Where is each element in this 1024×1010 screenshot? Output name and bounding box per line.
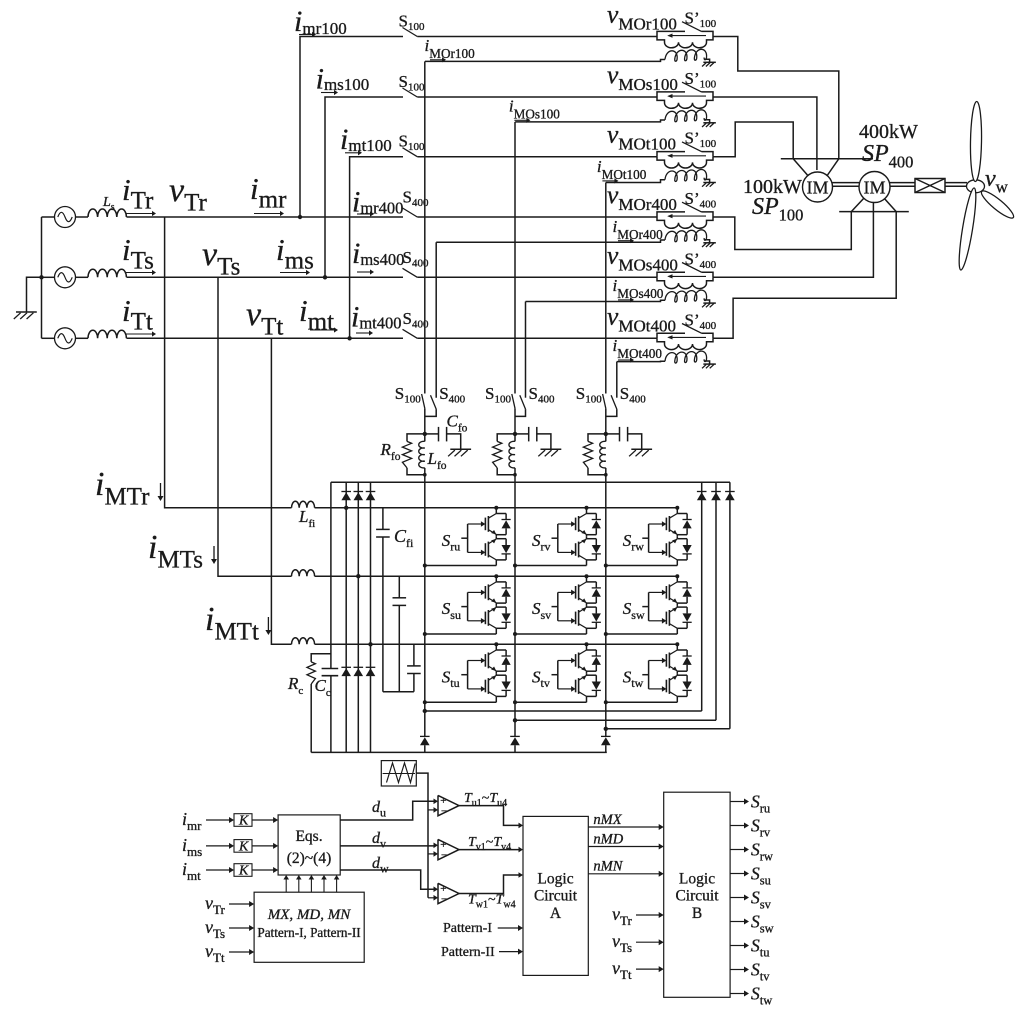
wire MX-Eqs arrow bbox=[298, 879, 300, 893]
node tap bbox=[298, 215, 302, 219]
wire output v bbox=[514, 482, 516, 736]
svg-text:Logic: Logic bbox=[679, 871, 715, 888]
wire clamp left edge lower bbox=[330, 676, 332, 753]
wire after switch bbox=[417, 337, 657, 339]
wire node to converter bbox=[605, 434, 607, 442]
svg-text:Eqs.: Eqs. bbox=[295, 828, 322, 845]
comparator v bbox=[438, 839, 459, 859]
wire Stw output bbox=[606, 701, 678, 703]
turbine blade lower-left bbox=[956, 187, 979, 271]
wire after switch bbox=[417, 216, 657, 218]
wire i_MOs400 bbox=[526, 301, 658, 303]
clamp diode leg r bbox=[345, 482, 347, 752]
inductor Lfo bbox=[509, 441, 515, 468]
wire K to Eqs bbox=[252, 869, 274, 871]
wire secondary left bbox=[657, 60, 665, 62]
wire secondary right bbox=[705, 240, 710, 243]
comparator w bbox=[438, 883, 459, 903]
wire phase bbox=[76, 276, 89, 278]
wire node to converter bbox=[424, 434, 426, 442]
wire vT to MX block bbox=[229, 951, 250, 953]
node Rfo bottom bbox=[423, 473, 427, 477]
wire tap phase r to 100-line bbox=[300, 37, 403, 218]
wire Pattern-I bbox=[498, 927, 519, 929]
wire r400 to IM400 bbox=[713, 212, 851, 250]
wire clamp left edge upper bbox=[330, 482, 332, 668]
node Stv bbox=[513, 700, 517, 704]
wire branch v S100 side bbox=[514, 122, 516, 394]
wire t100 to IM100 bbox=[713, 122, 793, 159]
secondary coil MOt400 bbox=[665, 351, 707, 363]
inductor Lfi t bbox=[292, 638, 315, 645]
node tap bbox=[347, 336, 351, 340]
switch S400 branch u blade bbox=[431, 395, 437, 409]
wire S_tv output bbox=[730, 969, 745, 971]
wire MX-Eqs arrow bbox=[336, 879, 338, 893]
wire d_w bbox=[340, 870, 433, 889]
switch S'100 blade bbox=[682, 142, 702, 152]
ground secondary bbox=[703, 363, 715, 365]
switch cell Stu bbox=[461, 674, 467, 676]
wire IM100 lead right bbox=[827, 159, 839, 177]
switch S100 line 3 blade bbox=[403, 148, 418, 157]
wire branch u S100 side bbox=[424, 61, 426, 393]
wire after switch bbox=[417, 36, 657, 38]
wire vT to MX block bbox=[229, 927, 250, 929]
wire S_ru output bbox=[730, 801, 745, 803]
switch S100 line 2 blade bbox=[403, 88, 418, 97]
switch S400 branch w blade bbox=[611, 395, 617, 409]
wire i_MTs bbox=[218, 277, 292, 576]
capacitor Cfo bbox=[606, 433, 620, 435]
block Logic Circuit B bbox=[664, 792, 730, 997]
inductor Ls coil bbox=[88, 330, 126, 338]
ground Cfo bbox=[450, 448, 471, 450]
wire i_MTr bbox=[165, 217, 292, 508]
switch cell Ssu bbox=[461, 606, 467, 608]
switch S100 branch v blade bbox=[512, 394, 515, 408]
transformer block MOs400 bbox=[657, 272, 685, 277]
switch S'400 blade bbox=[682, 202, 702, 212]
wire secondary right bbox=[705, 59, 710, 62]
shaft IM400-gearbox bbox=[890, 182, 915, 184]
wire rail r bbox=[292, 507, 300, 509]
ac source Vr bbox=[55, 207, 76, 228]
wire MX-Eqs arrow bbox=[323, 879, 325, 893]
wire IM400 input bar bbox=[839, 211, 909, 213]
svg-text:(2)~(4): (2)~(4) bbox=[287, 850, 332, 867]
node filter bbox=[604, 432, 608, 436]
switch cell Sru bbox=[461, 537, 467, 539]
wire secondary right bbox=[705, 120, 710, 123]
wire Sru output bbox=[425, 565, 497, 567]
wire after switch bbox=[417, 156, 657, 158]
node clamp-rail bbox=[356, 574, 360, 578]
wire i_MOt100 bbox=[606, 182, 657, 184]
svg-text:nMD: nMD bbox=[593, 831, 623, 847]
switch cell Stw bbox=[642, 674, 648, 676]
capacitor Cfi t bbox=[413, 644, 415, 666]
node clamp-rail bbox=[368, 642, 372, 646]
wire T_u out bbox=[459, 806, 519, 826]
wire i_MOt400 bbox=[617, 361, 657, 363]
svg-text:IM: IM bbox=[807, 178, 829, 198]
wire Srw output bbox=[606, 565, 678, 567]
ground secondary bbox=[703, 182, 715, 184]
wire t400 to IM400 bbox=[713, 212, 896, 339]
wire tap phase s to 100-line bbox=[325, 97, 403, 277]
ground Cfo bbox=[541, 448, 562, 450]
node Rfo bottom bbox=[604, 473, 608, 477]
diode output v to N bbox=[510, 735, 520, 737]
wire S_sw output bbox=[730, 921, 745, 923]
wire Pattern-II bbox=[499, 951, 519, 953]
inductor Ls coil bbox=[88, 209, 126, 217]
transformer block MOs100 bbox=[657, 92, 685, 97]
node Stw bbox=[604, 700, 608, 704]
wire vT to Logic B bbox=[636, 968, 660, 970]
svg-text:400kW: 400kW bbox=[859, 121, 918, 143]
transformer block MOr400 bbox=[657, 212, 685, 217]
ground Cfo bbox=[631, 448, 652, 450]
transformer block MOt100 bbox=[657, 152, 685, 157]
clamp diode leg s bbox=[357, 482, 359, 752]
wire T_w out bbox=[459, 875, 519, 894]
wire IM400 lead right bbox=[884, 198, 897, 212]
diode output u to N bbox=[420, 735, 430, 737]
switch S400 branch v blade bbox=[520, 395, 526, 409]
switch S'100 blade bbox=[682, 22, 702, 32]
wire i_MOr100 bbox=[425, 60, 657, 62]
svg-text:B: B bbox=[692, 905, 702, 922]
wire nMN bbox=[588, 873, 659, 875]
wire S_sv output bbox=[730, 897, 745, 899]
secondary coil MOr100 bbox=[665, 49, 707, 61]
resistor Rfo bbox=[497, 434, 515, 442]
switch S'400 blade bbox=[682, 263, 702, 273]
wire nMX bbox=[588, 826, 659, 828]
wire IM100 input bar bbox=[781, 158, 873, 160]
node Ssw bbox=[604, 632, 608, 636]
wire vT to Logic B bbox=[636, 914, 660, 916]
wire K to Eqs bbox=[252, 845, 274, 847]
wire S_tu output bbox=[730, 945, 745, 947]
secondary coil MOs100 bbox=[665, 110, 707, 122]
inductor Lfo bbox=[600, 441, 606, 468]
wire d_u bbox=[340, 801, 433, 820]
diode output v to P bbox=[715, 482, 717, 720]
wire output w bbox=[605, 482, 607, 736]
switch S400 row t blade bbox=[403, 329, 418, 338]
wire minus input bbox=[428, 809, 435, 811]
wire S_rw output bbox=[730, 849, 745, 851]
wire minus input bbox=[428, 897, 435, 899]
wire S_rv output bbox=[730, 825, 745, 827]
svg-text:K: K bbox=[238, 864, 249, 879]
switch cell Ssv bbox=[552, 606, 558, 608]
capacitor Cfi s bbox=[398, 576, 400, 598]
turbine blade lower-right bbox=[979, 188, 1017, 222]
wire to K bbox=[206, 845, 230, 847]
wire S400 join bbox=[515, 409, 526, 416]
transformer block MOr100 bbox=[657, 31, 685, 36]
wire nMD bbox=[588, 846, 659, 848]
node Stu bbox=[423, 700, 427, 704]
wire to node bbox=[605, 408, 607, 434]
shaft gearbox-turbine bbox=[945, 182, 967, 184]
switch S400 row s blade bbox=[403, 268, 418, 277]
wire secondary right bbox=[705, 300, 710, 303]
wire secondary left bbox=[657, 300, 665, 301]
ground secondary bbox=[703, 242, 715, 244]
wire neutral to ground bbox=[27, 277, 42, 311]
motor IM 400kW bbox=[859, 172, 890, 203]
resistor Rfo bbox=[588, 434, 606, 442]
ac source Vs bbox=[55, 267, 76, 288]
wire node to converter bbox=[514, 434, 516, 442]
wire Srv output bbox=[515, 565, 587, 567]
svg-text:nMX: nMX bbox=[593, 812, 622, 828]
wire MX-Eqs arrow bbox=[310, 879, 312, 893]
svg-text:IM: IM bbox=[864, 178, 886, 198]
capacitor Cfo bbox=[515, 433, 529, 435]
wire source left bus bbox=[42, 216, 55, 218]
block Eqs (2)-(4) bbox=[278, 815, 340, 875]
wire to node bbox=[514, 408, 516, 434]
carrier generator box bbox=[381, 761, 416, 786]
gain block K ms bbox=[234, 840, 252, 853]
transformer block MOt400 bbox=[657, 333, 685, 338]
inductor Lfo bbox=[419, 441, 425, 468]
wire feedback v bbox=[515, 719, 716, 721]
wire i_MOr400 bbox=[436, 241, 657, 243]
wire to K bbox=[206, 819, 230, 821]
svg-text:Pattern-I, Pattern-II: Pattern-I, Pattern-II bbox=[257, 925, 360, 940]
ground source bbox=[16, 311, 37, 313]
wire branch v S400 side bbox=[525, 302, 527, 398]
wire vT to Logic B bbox=[636, 941, 660, 943]
wire carrier out bbox=[416, 773, 428, 898]
wire minus input bbox=[428, 853, 435, 855]
shaft IM100-IM400 bbox=[833, 182, 860, 184]
wire to node bbox=[424, 408, 426, 434]
wire S400 join bbox=[425, 409, 436, 416]
svg-text:nMN: nMN bbox=[593, 859, 623, 875]
inductor Ls coil bbox=[88, 269, 126, 277]
wire phase bbox=[76, 216, 89, 218]
wire i_MTt bbox=[271, 338, 291, 644]
wire secondary left bbox=[657, 360, 665, 362]
switch S400 row r blade bbox=[403, 208, 418, 217]
diode output u to P bbox=[701, 482, 703, 711]
capacitor Cfo bbox=[425, 433, 439, 435]
svg-text:Pattern-II: Pattern-II bbox=[441, 945, 495, 960]
svg-text:Pattern-I: Pattern-I bbox=[443, 921, 492, 936]
wire S_tw output bbox=[730, 993, 745, 995]
wire Stv output bbox=[515, 701, 587, 703]
node Ssu bbox=[423, 632, 427, 636]
ground secondary bbox=[703, 61, 715, 63]
wire K to Eqs bbox=[252, 819, 274, 821]
wire secondary left bbox=[657, 240, 665, 242]
wire branch u S400 side bbox=[435, 242, 437, 397]
wire secondary right bbox=[705, 361, 710, 364]
switch cell Srv bbox=[552, 537, 558, 539]
switch S'400 blade bbox=[682, 324, 702, 334]
wire T_v out bbox=[459, 849, 519, 851]
node tap bbox=[323, 275, 327, 279]
wire s100 to IM100 bbox=[713, 97, 817, 170]
gearbox bbox=[915, 179, 945, 193]
node Srw bbox=[604, 564, 608, 568]
node Srv bbox=[513, 564, 517, 568]
node filter bbox=[423, 432, 427, 436]
node filter bbox=[513, 432, 517, 436]
wire IM400 lead left bbox=[851, 198, 864, 212]
svg-text:Logic: Logic bbox=[537, 871, 573, 888]
wire after switch bbox=[417, 276, 657, 278]
switch cell Srw bbox=[642, 537, 648, 539]
wire to K bbox=[206, 869, 230, 871]
wire Stu output bbox=[425, 701, 497, 703]
switch S'100 blade bbox=[682, 82, 702, 92]
wire feedback w bbox=[606, 728, 730, 730]
svg-text:−: − bbox=[441, 849, 447, 861]
wire P clamp bus bbox=[331, 481, 730, 483]
svg-text:MX, MD, MN: MX, MD, MN bbox=[267, 907, 351, 923]
svg-text:−: − bbox=[441, 893, 447, 905]
block MX MD MN patterns bbox=[254, 892, 364, 962]
inductor Lfi r bbox=[292, 501, 315, 508]
inductor Lfi s bbox=[292, 570, 315, 577]
capacitor Cc bbox=[322, 668, 339, 670]
wire r100 to IM100 bbox=[713, 37, 839, 159]
resistor Rfo bbox=[407, 434, 425, 442]
diode output w to N bbox=[601, 735, 611, 737]
svg-text:−: − bbox=[441, 805, 447, 817]
node Rfo bottom bbox=[513, 473, 517, 477]
capacitor Cfi r bbox=[382, 508, 384, 530]
wire rail s bbox=[292, 575, 300, 577]
wire d_v bbox=[340, 845, 433, 847]
turbine hub bbox=[967, 180, 985, 193]
node Ssv bbox=[513, 632, 517, 636]
svg-text:K: K bbox=[238, 839, 249, 854]
diode output w to P bbox=[729, 482, 731, 729]
turbine blade up bbox=[970, 101, 982, 181]
node clamp-rail bbox=[344, 506, 348, 510]
node Sru bbox=[423, 564, 427, 568]
block Logic Circuit A bbox=[523, 816, 588, 975]
wire Cfi star bbox=[383, 691, 414, 693]
switch cell Ssw bbox=[642, 606, 648, 608]
wire after switch bbox=[417, 96, 657, 98]
clamp diode leg t bbox=[370, 482, 372, 752]
wire rail t bbox=[292, 643, 300, 645]
wire secondary right bbox=[705, 179, 710, 182]
wire branch w S400 side bbox=[616, 362, 618, 398]
svg-text:Circuit: Circuit bbox=[675, 888, 719, 905]
secondary coil MOs400 bbox=[665, 290, 707, 302]
wire IM100 lead left bbox=[793, 159, 809, 177]
comparator u bbox=[438, 795, 459, 815]
wire branch w S100 side bbox=[605, 183, 607, 394]
wire i_MOs100 bbox=[515, 121, 657, 123]
svg-text:A: A bbox=[550, 905, 562, 922]
secondary coil MOt100 bbox=[665, 170, 707, 182]
wire phase bbox=[76, 337, 89, 339]
wire S400 join bbox=[606, 409, 617, 416]
wire Ssw output bbox=[606, 633, 678, 635]
wire secondary left bbox=[657, 180, 665, 183]
gain block K mt bbox=[234, 864, 252, 877]
node source neutral bbox=[39, 275, 43, 279]
secondary coil MOr400 bbox=[665, 230, 707, 242]
wire secondary left bbox=[657, 120, 665, 122]
wire feedback u bbox=[425, 710, 702, 712]
switch S100 branch u blade bbox=[422, 394, 425, 408]
wire tap phase t to 100-line bbox=[350, 157, 403, 339]
wire S_su output bbox=[730, 873, 745, 875]
switch S100 line 1 blade bbox=[403, 28, 418, 37]
svg-text:K: K bbox=[238, 814, 249, 829]
resistor Rc bbox=[311, 654, 331, 662]
ac source Vt bbox=[55, 328, 76, 349]
wire Ssv output bbox=[515, 633, 587, 635]
wire N clamp bus bbox=[311, 751, 607, 753]
svg-text:Circuit: Circuit bbox=[534, 888, 578, 905]
motor IM 100kW bbox=[803, 172, 833, 202]
switch S100 branch w blade bbox=[603, 394, 606, 408]
gain block K mr bbox=[234, 814, 252, 827]
wire MX-Eqs arrow bbox=[285, 879, 287, 893]
wire s400 to IM400 bbox=[713, 203, 873, 278]
wire output u bbox=[424, 482, 426, 736]
wire vT to MX block bbox=[229, 903, 250, 905]
ground secondary bbox=[703, 302, 715, 304]
wire Ssu output bbox=[425, 633, 497, 635]
ground secondary bbox=[703, 122, 715, 124]
switch cell Stv bbox=[552, 674, 558, 676]
